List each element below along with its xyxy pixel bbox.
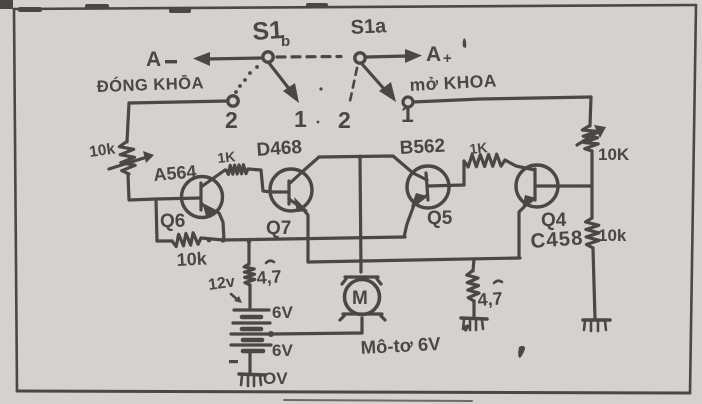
- wire Q5 base up to 1K: [462, 161, 465, 185]
- switch S1a label: [350, 15, 388, 39]
- wire left rail down to potentiometer: [127, 103, 129, 142]
- motor M: [340, 277, 385, 333]
- svg-text:10k: 10k: [176, 248, 208, 270]
- transistor Q5 B562: [404, 166, 464, 237]
- label D468: [256, 137, 303, 161]
- svg-text:1: 1: [294, 106, 307, 132]
- svg-text:OV: OV: [263, 369, 288, 388]
- label 0V: [263, 369, 288, 388]
- svg-text:10k: 10k: [598, 226, 627, 245]
- label 4,7 right: [477, 281, 503, 310]
- polarity arrow: [231, 294, 242, 303]
- switch S1b pole: [263, 52, 273, 62]
- label MO KHOA: [409, 70, 497, 95]
- svg-text:S1: S1: [251, 16, 284, 46]
- wire right rail lower to ground: [593, 248, 595, 319]
- wire motor feed vertical: [358, 155, 363, 272]
- battery 12V: [229, 310, 271, 373]
- svg-text:b: b: [281, 33, 290, 50]
- S1b throw arrow to contact 1: [269, 63, 299, 103]
- wire 1K to Q7 base: [248, 169, 271, 192]
- node contact 2 of S1a: [338, 107, 351, 133]
- svg-text:4,7: 4,7: [256, 266, 282, 288]
- potentiometer 10k left: [109, 142, 154, 174]
- wire right rail upper: [590, 97, 591, 126]
- wire battery column top: [247, 239, 252, 264]
- svg-text:Q6: Q6: [160, 211, 185, 232]
- svg-text:Q7: Q7: [266, 218, 291, 239]
- dashed line S1a pole to contact 2: [350, 68, 357, 101]
- svg-text:1K: 1K: [469, 139, 488, 157]
- node contact 2 of S1b: [225, 96, 238, 133]
- label 4,7 left: [256, 261, 282, 288]
- label C458: [530, 226, 584, 253]
- label A-: [146, 48, 177, 71]
- label 12v: [207, 273, 236, 294]
- svg-text:A564: A564: [153, 161, 198, 185]
- svg-text:6V: 6V: [272, 303, 293, 322]
- capacitor 4,7 right: [467, 259, 479, 317]
- switch S1a pole: [355, 53, 365, 63]
- label Q7: [266, 218, 291, 239]
- resistor 1K (Q6-Q7): [226, 165, 248, 175]
- svg-text:Q5: Q5: [427, 208, 453, 229]
- wire right rail mid: [590, 151, 593, 218]
- capacitor 4,7 left: [244, 264, 255, 285]
- dotted line S1b pole to contact 2: [234, 65, 259, 94]
- svg-text:2: 2: [225, 107, 238, 133]
- label DONG KHOA: [96, 73, 204, 96]
- arrow A- from S1b pole: [193, 52, 262, 66]
- label Q5: [427, 208, 453, 229]
- resistor 10k bottom left: [157, 233, 223, 247]
- resistor 1K (Q5-Q4): [464, 154, 505, 167]
- svg-text:Mô-tơ 6V: Mô-tơ 6V: [360, 333, 442, 358]
- potentiometer 10k right: [577, 125, 606, 151]
- svg-text:1K: 1K: [217, 148, 236, 166]
- wire top right from contact 1: [413, 97, 591, 102]
- collector bus Q7-Q5: [319, 156, 413, 173]
- label 1K: [217, 148, 236, 166]
- node contact 1 of S1a: [401, 97, 414, 127]
- transistor Q7 D468: [270, 157, 319, 262]
- svg-text:+: +: [443, 50, 452, 67]
- label B562: [399, 136, 445, 159]
- wire Q6 base: [156, 198, 200, 199]
- label 6V lower: [272, 341, 293, 360]
- emitter rail wire: [207, 237, 405, 243]
- svg-text:4,7: 4,7: [477, 288, 503, 310]
- wire pot to Q6 base node: [128, 174, 156, 200]
- wire battery tap to motor: [271, 333, 362, 334]
- svg-text:B562: B562: [399, 136, 445, 159]
- svg-text:1: 1: [401, 101, 414, 127]
- svg-text:ĐÓNG KHŌA: ĐÓNG KHŌA: [96, 73, 204, 96]
- svg-text:D468: D468: [256, 137, 303, 161]
- ground battery: [239, 374, 265, 386]
- label 6V upper: [272, 303, 293, 322]
- label 1K right: [469, 139, 488, 157]
- svg-text:10k: 10k: [88, 140, 116, 160]
- label 10K right: [598, 145, 630, 164]
- dashed link S1b-S1a: [277, 55, 341, 59]
- label Q6: [160, 211, 185, 232]
- label 10k left: [88, 140, 116, 160]
- svg-text:2: 2: [338, 107, 351, 133]
- svg-text:M: M: [352, 288, 368, 309]
- svg-text:A: A: [426, 43, 441, 66]
- svg-text:C458: C458: [530, 226, 584, 253]
- wire contact2 to left rail: [129, 101, 228, 103]
- arrow A+ from S1a pole: [366, 49, 422, 63]
- switch S1b label: [251, 16, 290, 50]
- ground capacitor right: [461, 318, 487, 330]
- svg-text:S1a: S1a: [350, 15, 388, 39]
- label Mo-to 6V: [360, 333, 442, 358]
- node battery mid tap: [268, 331, 274, 337]
- node contact 1 of S1b: [294, 106, 307, 132]
- label 10k bottom right: [598, 226, 627, 245]
- transistor Q6 A564: [182, 170, 226, 240]
- svg-text:A: A: [146, 48, 161, 71]
- S1a throw arrow to contact 1: [362, 64, 396, 102]
- ground right rail: [583, 320, 610, 331]
- wire lower rail y262: [308, 258, 520, 262]
- label Q4: [541, 210, 567, 231]
- svg-text:10K: 10K: [598, 145, 630, 164]
- label A564: [153, 161, 198, 185]
- wire base node down to emitter rail: [156, 199, 157, 241]
- svg-text:6V: 6V: [272, 341, 293, 360]
- resistor 10k bottom right: [586, 218, 600, 248]
- transistor Q4 C458: [516, 165, 591, 257]
- label A+: [426, 43, 452, 67]
- wire cap to battery: [248, 285, 251, 310]
- wire 1K to Q4 collector: [505, 160, 535, 170]
- label 10k bottom left: [176, 248, 208, 270]
